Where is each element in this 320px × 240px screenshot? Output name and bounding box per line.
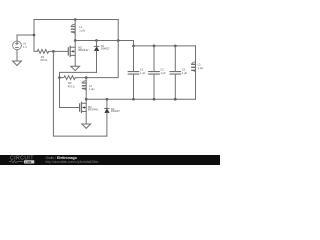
node C1 top: [132, 45, 135, 48]
footer credit text: [46, 156, 99, 164]
svg-text:1N4007: 1N4007: [111, 109, 121, 113]
label L1 1uH: [79, 25, 85, 32]
wire capacitor top rail: [134, 45, 196, 47]
svg-text:http://circuitlab.com/c/y3uhaf: http://circuitlab.com/c/y3uhafa628sh: [46, 160, 99, 164]
node crossing: [117, 39, 120, 42]
resistor R2: [60, 76, 87, 80]
node L2 top: [85, 76, 88, 79]
label M1 IRFZ44V: [78, 46, 89, 53]
label D1 1N4007: [101, 44, 111, 51]
label L2 1uH: [89, 84, 95, 91]
wire D1 anode to gate node: [60, 72, 97, 107]
inductor L1: [71, 20, 75, 41]
node V1 junction: [33, 34, 36, 37]
resistor R1: [34, 50, 53, 54]
svg-text:1 μF: 1 μF: [182, 71, 188, 75]
node C1 bottom: [132, 98, 135, 101]
label C1 1uF: [140, 68, 146, 75]
wire bottom output rail: [86, 98, 195, 100]
svg-text:IRFZ44V: IRFZ44V: [78, 48, 89, 52]
inductor L2: [82, 78, 86, 100]
svg-text:1 μH: 1 μH: [89, 87, 95, 91]
ground below M2: [82, 124, 91, 128]
svg-text:1 μF: 1 μF: [161, 71, 167, 75]
wire M1 drain: [74, 41, 76, 48]
wire top rail: [34, 19, 118, 21]
footer bar: [0, 155, 220, 165]
svg-text:470 Ω: 470 Ω: [68, 84, 75, 88]
node C3 bottom: [174, 98, 177, 101]
label V1: [23, 42, 27, 49]
label C2 1uF: [160, 68, 166, 75]
label L3 1uH: [198, 63, 204, 70]
node L1 top: [74, 18, 77, 21]
capacitor C1: [128, 46, 139, 99]
svg-text:1 V: 1 V: [23, 45, 27, 49]
label R1 470ohm: [40, 55, 47, 62]
node R1 / gate junction: [52, 50, 55, 53]
node M2 drain junction: [85, 98, 88, 101]
node C2 top: [153, 45, 156, 48]
svg-text:IRFZ44V: IRFZ44V: [88, 108, 99, 112]
wire V1 to left vertical: [17, 35, 34, 41]
wire drain rail: [75, 40, 133, 42]
wire step to capacitor rail: [133, 41, 135, 46]
node D2 top: [106, 98, 109, 101]
transistor M1: [68, 46, 75, 56]
wire M2 drain: [85, 99, 87, 103]
wire M2 source: [85, 112, 87, 125]
label R2 470ohm: [68, 81, 75, 88]
inductor L3: [192, 46, 196, 99]
node R2 left junction: [58, 76, 61, 79]
wire M1 source: [74, 55, 76, 66]
label D2 1N4007: [111, 107, 121, 113]
wire M2 gate: [60, 107, 80, 109]
wire gate M1: [53, 50, 68, 52]
wire gate M1 feedback loop: [53, 51, 107, 136]
label M2 IRFZ44V: [88, 105, 99, 112]
svg-text:LAB: LAB: [25, 160, 31, 164]
node C2 bottom: [153, 98, 156, 101]
node C3 top: [174, 45, 177, 48]
svg-text:470 Ω: 470 Ω: [40, 58, 47, 62]
capacitor C3: [170, 46, 181, 99]
svg-text:L3: L3: [198, 63, 201, 67]
label C3 1uF: [182, 68, 188, 75]
ground below M1: [71, 66, 80, 70]
diode D2: [105, 99, 110, 136]
node M1 drain junction: [74, 39, 77, 42]
capacitor C2: [149, 46, 160, 99]
wire V+ drop to R2 rail: [86, 20, 118, 78]
voltage source V1: [13, 41, 22, 50]
node D1 top: [95, 39, 98, 42]
svg-text:1 μH: 1 μH: [198, 66, 204, 70]
wire V1 to ground: [16, 50, 18, 61]
svg-text:1 μH: 1 μH: [79, 28, 85, 32]
svg-text:1N4007: 1N4007: [101, 47, 111, 51]
diode D1: [94, 41, 99, 73]
svg-text:1 μF: 1 μF: [140, 71, 146, 75]
wire left vertical V+ to R1: [33, 20, 35, 52]
logo CircuitLab: [9, 155, 34, 164]
transistor M2: [80, 102, 87, 112]
ground below V1: [13, 61, 22, 66]
